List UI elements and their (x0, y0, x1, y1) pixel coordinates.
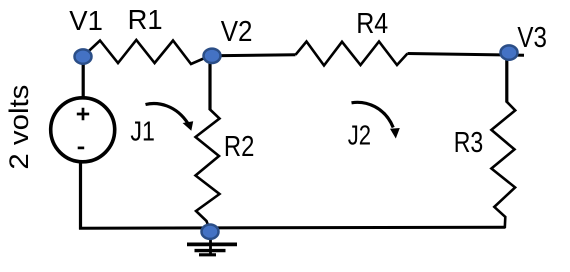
svg-text:R2: R2 (224, 131, 255, 163)
svg-text:V1: V1 (69, 5, 103, 36)
wire R4 to V3 (408, 54, 525, 56)
ground node (202, 225, 219, 239)
bottom wire (79, 227, 506, 228)
svg-text:2 volts: 2 volts (4, 85, 34, 170)
svg-text:R3: R3 (454, 127, 484, 159)
+ terminal (77, 108, 89, 120)
ground bar 2 (195, 249, 226, 252)
resistor R3 (491, 102, 515, 228)
resistor R1 (84, 40, 211, 64)
svg-text:R4: R4 (356, 8, 388, 40)
node V2 (204, 49, 221, 63)
resistor R4 (296, 42, 408, 66)
- terminal (78, 147, 85, 150)
voltage source circle (51, 98, 115, 162)
wire V1 to source (82, 60, 85, 98)
svg-text:R1: R1 (128, 4, 163, 35)
wire V2 to R4 (213, 53, 296, 57)
ground bar 3 (199, 253, 216, 256)
wire V3 to R3 (505, 58, 508, 103)
ground stem (209, 234, 212, 254)
svg-text:V2: V2 (221, 16, 253, 48)
node V1 (75, 49, 92, 63)
ground bar 1 (187, 242, 237, 246)
wire source to bottom (79, 161, 82, 230)
svg-text:J1: J1 (130, 116, 155, 147)
svg-text:V3: V3 (517, 22, 547, 54)
wire V2 to R2 (208, 60, 211, 110)
svg-text:J2: J2 (348, 119, 371, 150)
node V3 (501, 45, 518, 59)
resistor R2 (196, 109, 220, 230)
loop current J2 arrow (352, 102, 400, 138)
loop current J1 arrow (146, 104, 194, 131)
